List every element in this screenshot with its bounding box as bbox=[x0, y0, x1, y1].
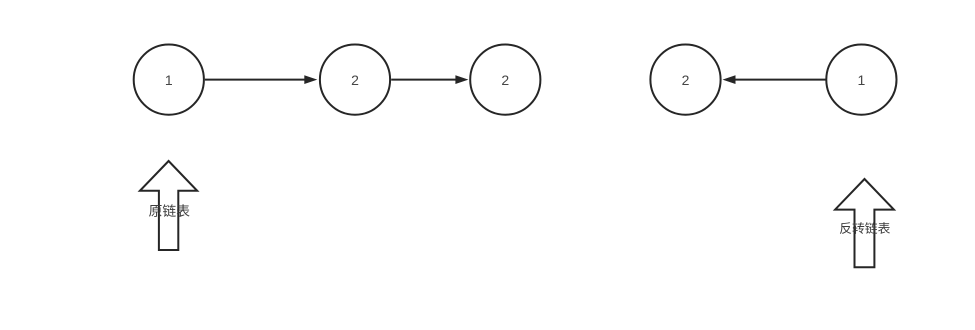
node circle 1 (original list) bbox=[134, 45, 204, 115]
block up-arrow (reversed list pointer) bbox=[835, 179, 894, 267]
node circle 2 (reversed list) bbox=[650, 45, 720, 115]
wire arrow from node 2 to node 2 (tail) bbox=[391, 75, 468, 84]
svg-text:2: 2 bbox=[682, 72, 690, 88]
wire arrow from node 1 to node 2 (reversed, pointing left) bbox=[723, 75, 826, 84]
svg-text:1: 1 bbox=[858, 72, 866, 88]
svg-text:2: 2 bbox=[501, 72, 509, 88]
svg-text:2: 2 bbox=[351, 72, 359, 88]
label 反转链表 bbox=[840, 222, 890, 234]
wire arrow from node 1 to node 2 bbox=[205, 75, 317, 84]
block up-arrow (original list pointer) bbox=[140, 161, 197, 250]
svg-text:1: 1 bbox=[165, 72, 173, 88]
label 原链表 bbox=[149, 204, 189, 217]
node circle 1 (reversed list) bbox=[826, 45, 896, 115]
node circle 2 (original list, middle) bbox=[320, 45, 390, 115]
node circle 2 (original list, tail) bbox=[470, 45, 540, 115]
